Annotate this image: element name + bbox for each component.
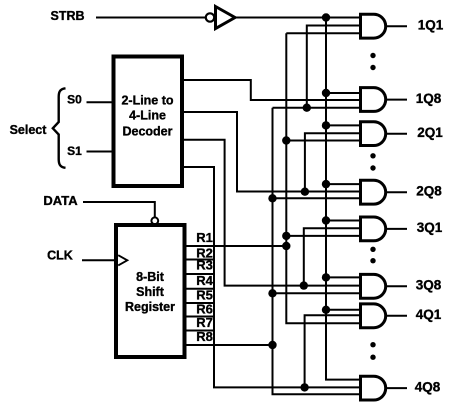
wire 4Q1 output — [387, 315, 408, 317]
wire R5 stub — [187, 302, 214, 304]
junction STRB-4Q1 — [322, 306, 330, 314]
wire R3 stub — [187, 273, 214, 275]
junction STRB-2Q1 — [322, 121, 330, 129]
svg-text:4Q1: 4Q1 — [416, 307, 442, 322]
bubble register data input — [151, 217, 158, 224]
brace select — [53, 88, 66, 168]
svg-text:STRB: STRB — [50, 9, 84, 23]
wire R2 stub — [187, 259, 214, 261]
wire R6 stub — [187, 316, 214, 318]
svg-text:3Q8: 3Q8 — [416, 278, 442, 293]
svg-text:Decoder: Decoder — [122, 125, 172, 139]
junction out2-link — [301, 188, 309, 196]
wire STRB to 1Q8 — [326, 92, 361, 94]
wire link out3 to 3Q1 — [304, 228, 361, 285]
junction R1-3Q1 — [282, 232, 290, 240]
svg-text:R1: R1 — [196, 230, 213, 245]
AND gate 3Q1 — [361, 217, 386, 241]
wire 1Q8 output — [387, 99, 408, 101]
junction R8net-1Q1link — [303, 104, 311, 112]
ellipsis bank3 — [370, 247, 375, 264]
wire R8 to 1Q8 — [273, 107, 361, 109]
AND gate 2Q1 — [361, 122, 386, 146]
svg-text:Select: Select — [10, 123, 48, 137]
svg-text:CLK: CLK — [47, 249, 73, 263]
svg-text:4Q8: 4Q8 — [415, 379, 441, 394]
wire R1 to 2Q1 — [286, 140, 360, 142]
wire R8 — [187, 344, 273, 346]
svg-text:R4: R4 — [196, 273, 213, 288]
junction R1-bus — [282, 242, 290, 250]
wire CLK — [82, 259, 116, 261]
wire STRB to 3Q1 — [326, 220, 361, 222]
junction R8-3Q8 — [268, 289, 276, 297]
wire STRB to 2Q8 — [326, 183, 361, 185]
svg-text:3Q1: 3Q1 — [417, 220, 443, 235]
junction STRB-3Q8 — [322, 273, 330, 281]
wire R8 to 3Q8 — [273, 292, 361, 294]
wire decoder out1 — [182, 80, 361, 100]
svg-text:R7: R7 — [196, 315, 213, 330]
svg-text:2-Line to: 2-Line to — [121, 94, 173, 108]
ellipsis bank1 — [370, 53, 375, 70]
wire link out2 to 2Q1 — [305, 133, 361, 191]
register block U3 — [116, 225, 185, 357]
junction R8-bus — [268, 341, 276, 349]
junction R8-2Q8 — [268, 194, 276, 202]
svg-text:2Q1: 2Q1 — [417, 125, 443, 140]
clock triangle — [118, 255, 127, 265]
svg-text:S1: S1 — [67, 144, 82, 158]
wire R7 stub — [187, 330, 214, 332]
wire S0 — [87, 101, 112, 103]
wire decoder out2 — [182, 112, 361, 192]
wire STRB net vertical — [326, 18, 361, 380]
AND gate 1Q8 — [361, 88, 386, 112]
wire 1Q1 output — [387, 25, 408, 27]
junction STRB-1Q1 — [322, 13, 330, 21]
wire R1 to 1Q1 — [286, 32, 360, 34]
AND gate 4Q1 — [361, 304, 386, 328]
svg-text:4-Line: 4-Line — [129, 109, 166, 123]
wire R1 — [187, 245, 287, 247]
wire DATA — [83, 202, 155, 217]
decoder block U2 — [114, 57, 183, 187]
wire 2Q1 output — [387, 133, 408, 135]
wire link R8net to 1Q1 — [307, 26, 361, 108]
junction STRB-3Q1 — [322, 216, 330, 224]
AND gate 4Q8 — [361, 376, 386, 400]
ellipsis bank4 — [370, 342, 375, 360]
wire STRB to 4Q1 — [326, 309, 361, 311]
inverter U1 — [216, 7, 236, 29]
svg-text:S0: S0 — [67, 93, 82, 107]
svg-text:8-Bit: 8-Bit — [136, 270, 165, 284]
wire decoder out4 — [182, 167, 361, 387]
wire 3Q8 output — [387, 285, 408, 287]
wire link out4 to 4Q1 — [305, 315, 361, 387]
wire R8 to 2Q8 — [273, 197, 361, 199]
svg-text:Register: Register — [125, 300, 175, 314]
junction out4-link — [300, 383, 308, 391]
junction STRB-1Q8 — [322, 89, 330, 97]
wire STRB input — [96, 17, 206, 19]
junction out3-link — [300, 281, 308, 289]
wire R1 bus vertical — [286, 33, 360, 323]
wire S1 — [87, 151, 112, 153]
wire R8 bus vertical — [273, 108, 361, 395]
junction R1-2Q1 — [282, 136, 290, 144]
wire 4Q8 output — [387, 387, 408, 389]
wire 3Q1 output — [387, 228, 408, 230]
AND gate 1Q1 — [361, 14, 386, 38]
wire R4 stub — [187, 288, 214, 290]
wire STRB to 3Q8 — [326, 276, 361, 278]
wire decoder out3 — [182, 140, 361, 286]
AND gate 2Q8 — [361, 180, 386, 204]
svg-text:1Q8: 1Q8 — [416, 91, 442, 106]
svg-text:R3: R3 — [196, 258, 213, 273]
wire R1 to 3Q1 — [286, 235, 360, 237]
svg-text:2Q8: 2Q8 — [416, 184, 442, 199]
AND gate 3Q8 — [361, 274, 386, 298]
wire 2Q8 output — [387, 191, 408, 193]
svg-text:1Q1: 1Q1 — [418, 17, 444, 32]
svg-text:R5: R5 — [196, 287, 213, 302]
ellipsis bank2 — [370, 153, 375, 171]
junction STRB-2Q8 — [322, 180, 330, 188]
svg-text:DATA: DATA — [43, 193, 78, 208]
inverter bubble — [206, 13, 214, 21]
wire STRB to 2Q1 — [326, 124, 361, 126]
svg-text:Shift: Shift — [136, 285, 165, 299]
wire STRB net horizontal — [235, 17, 361, 19]
svg-text:R8: R8 — [196, 329, 213, 344]
